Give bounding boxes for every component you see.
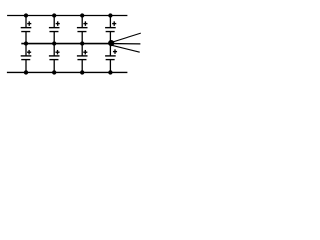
wire column 3: C7 to bottom rail: [81, 60, 83, 73]
wire column 2: middle rail to C6: [53, 44, 55, 56]
wire column 2: C6 to bottom rail: [53, 60, 55, 73]
wire column 4: C8 to bottom rail: [109, 60, 111, 73]
wire column 3: middle rail to C7: [81, 44, 83, 56]
capacitor C4 (polarized electrolytic): [105, 21, 116, 31]
wire column 4: top rail to C4: [109, 16, 111, 28]
junction bottom rail column 2: [52, 70, 56, 74]
capacitor C1 (polarized electrolytic): [21, 21, 32, 31]
junction top rail column 4: [108, 13, 112, 17]
wire column 1: C5 to bottom rail: [25, 60, 27, 73]
wire middle rail (midpoint bus): [21, 43, 112, 45]
junction bottom rail column 4: [108, 70, 112, 74]
wire column 2: C2 to middle rail: [53, 32, 55, 44]
wire top rail (positive bus): [7, 15, 127, 17]
capacitor C3 (polarized electrolytic): [77, 21, 88, 31]
wire column 3: top rail to C3: [81, 16, 83, 28]
wire column 1: C1 to middle rail: [25, 32, 27, 44]
capacitor C5 (polarized electrolytic): [21, 50, 32, 60]
junction middle rail column 1: [24, 41, 28, 45]
capacitor C2 (polarized electrolytic): [49, 21, 60, 31]
wire bottom rail (negative bus): [7, 71, 128, 73]
wire column 3: C3 to middle rail: [81, 32, 83, 44]
capacitor C8 (polarized electrolytic): [105, 49, 117, 59]
wire column 1: middle rail to C5: [25, 44, 27, 56]
junction bottom rail column 3: [80, 70, 84, 74]
wire column 2: top rail to C2: [53, 16, 55, 28]
wire output fan middle: [112, 43, 141, 45]
junction middle rail column 3: [80, 41, 84, 45]
wire column 1: top rail to C1: [25, 16, 27, 28]
capacitor C6 (polarized electrolytic): [49, 50, 60, 60]
junction top rail column 2: [52, 13, 56, 17]
junction top rail column 1: [24, 13, 28, 17]
wire column 4: middle rail to C8: [109, 44, 111, 56]
wire column 4: C4 to middle rail: [109, 32, 111, 44]
junction bottom rail column 1: [24, 70, 28, 74]
junction middle rail column 2: [52, 41, 56, 45]
capacitor C7 (polarized electrolytic): [77, 50, 88, 60]
wire output fan lower: [111, 45, 139, 52]
wire output fan upper: [112, 33, 141, 42]
node output junction (large dot): [108, 40, 114, 46]
junction top rail column 3: [80, 13, 84, 17]
